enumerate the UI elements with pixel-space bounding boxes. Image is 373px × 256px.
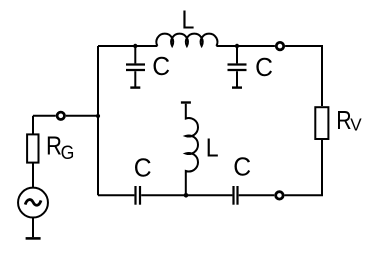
svg-text:G: G bbox=[61, 141, 75, 163]
svg-text:R: R bbox=[46, 132, 62, 161]
svg-text:C: C bbox=[255, 53, 273, 82]
svg-text:C: C bbox=[134, 154, 152, 183]
svg-text:C: C bbox=[152, 52, 170, 81]
svg-text:V: V bbox=[350, 114, 362, 135]
svg-text:L: L bbox=[182, 6, 195, 35]
svg-text:L: L bbox=[206, 135, 219, 164]
svg-text:C: C bbox=[233, 153, 251, 182]
